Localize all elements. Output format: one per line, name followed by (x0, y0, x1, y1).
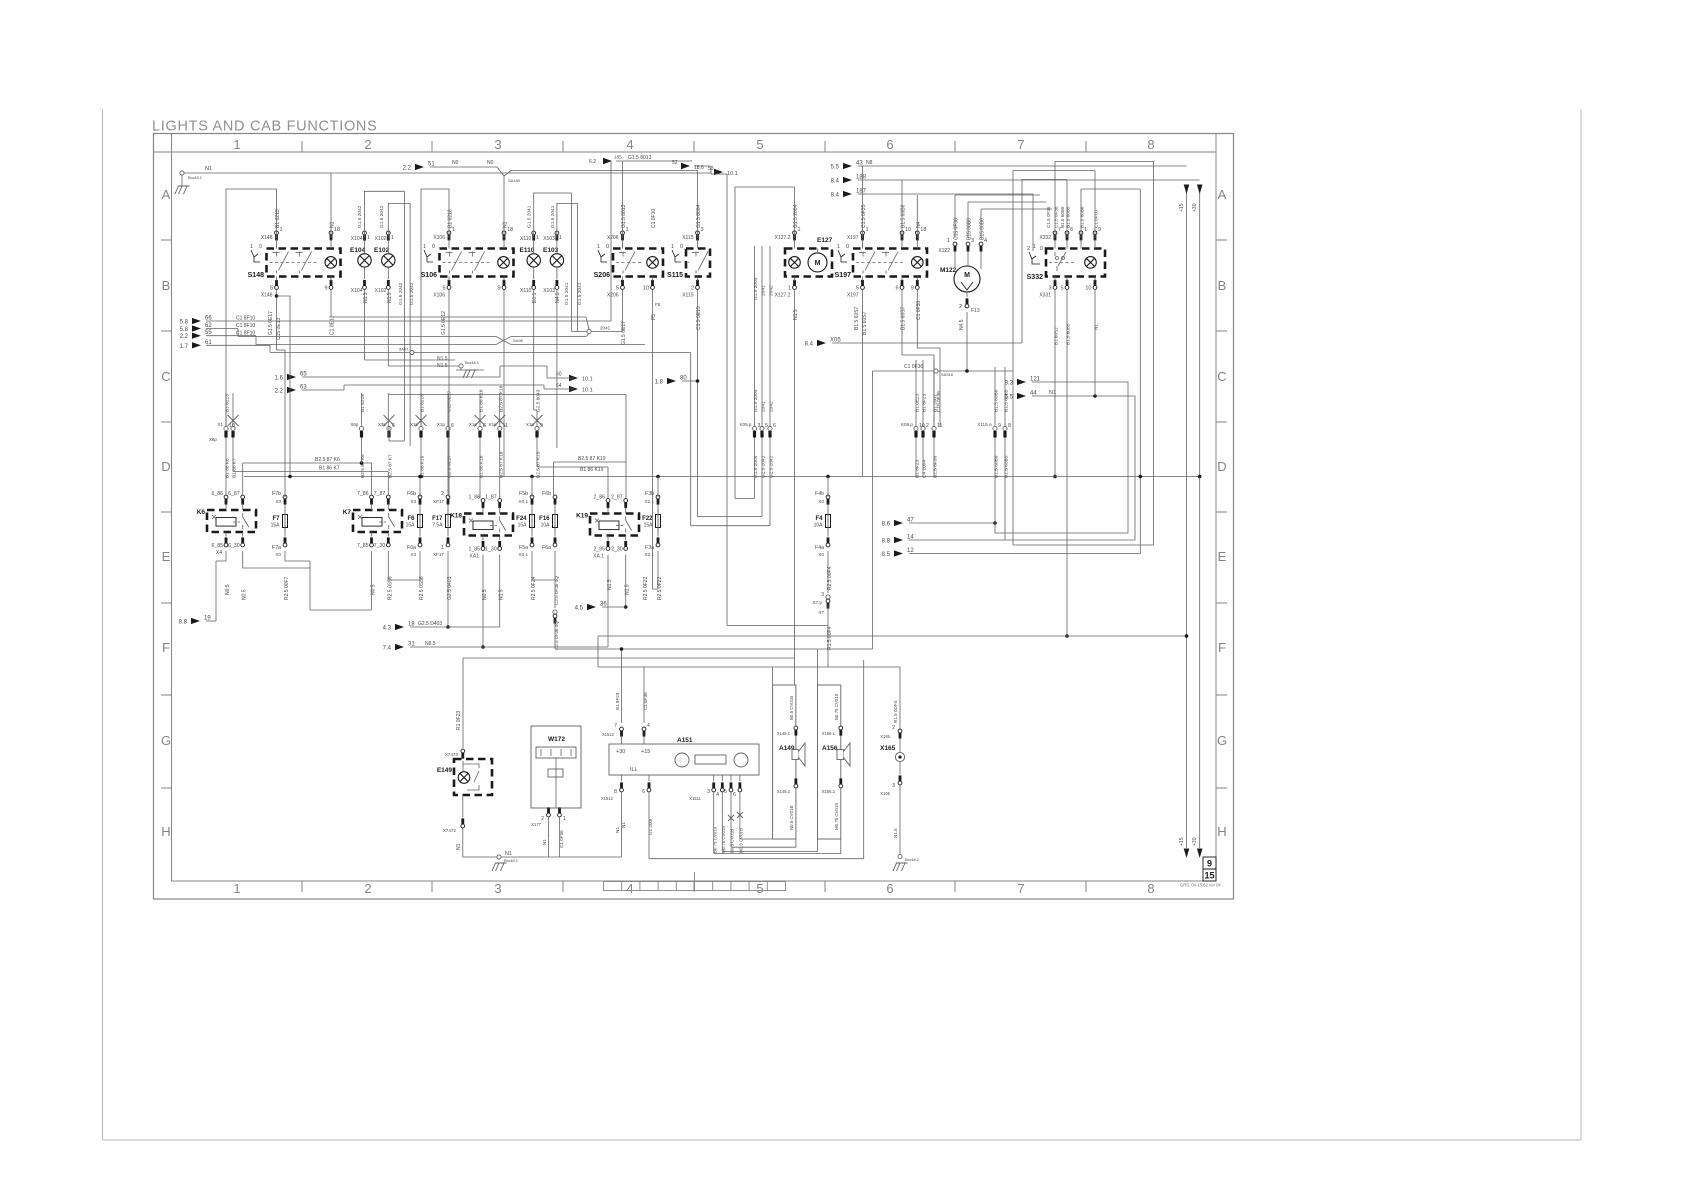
svg-text:2: 2 (926, 423, 929, 429)
arrow 19 row F (191, 618, 200, 624)
svg-text:10: 10 (1085, 286, 1091, 292)
svg-text:B1.5 60B6: B1.5 60B6 (994, 455, 1000, 478)
wire F7a down (285, 551, 310, 561)
svg-text:F7b: F7b (272, 491, 281, 497)
wire 10.1 drop (711, 173, 727, 175)
svg-text:F5a: F5a (519, 545, 528, 551)
junction 5A97 (410, 351, 414, 355)
wire F24a down (532, 551, 555, 580)
wire 187 to S332 lever (858, 193, 1033, 195)
svg-text:B1.5 60S7: B1.5 60S7 (854, 306, 860, 330)
wire F22a down (657, 551, 659, 589)
svg-text:9: 9 (540, 423, 543, 429)
lamp in S206 (647, 257, 659, 269)
arrow 47 right mid (894, 520, 903, 526)
svg-text:N8: N8 (866, 160, 873, 166)
wire R1 0F23 E149 feed (462, 658, 464, 748)
svg-text:X1512: X1512 (601, 796, 614, 801)
svg-text:1: 1 (250, 244, 253, 250)
svg-text:A151: A151 (677, 737, 693, 744)
wire top 189 (1081, 188, 1140, 190)
svg-text:C1.5 0F35: C1.5 0F35 (861, 204, 867, 228)
wire bus F corner (597, 636, 599, 667)
svg-text:X206: X206 (607, 293, 619, 299)
pin 3 S332 (1053, 286, 1057, 290)
svg-text:X197: X197 (847, 293, 859, 299)
svg-text:N1: N1 (456, 843, 462, 850)
wire 18 line (410, 626, 500, 628)
svg-text:0: 0 (606, 244, 609, 250)
svg-text:F7a: F7a (272, 545, 281, 551)
arrow 43 top right (843, 163, 852, 169)
svg-text:B1 86 K18: B1 86 K18 (479, 455, 485, 478)
svg-text:F5: F5 (655, 302, 661, 307)
svg-text:N4.5: N4.5 (959, 319, 965, 330)
svg-text:N1: N1 (503, 221, 509, 228)
wire S197 pin9 down (917, 290, 940, 427)
svg-text:W172: W172 (548, 736, 565, 743)
lamp in S106 (498, 257, 510, 269)
svg-text:F4b: F4b (815, 491, 824, 497)
svg-text:S206: S206 (594, 272, 610, 279)
pins W172 (547, 813, 551, 817)
svg-text:N1.5: N1.5 (437, 356, 448, 362)
svg-text:C: C (161, 369, 170, 384)
svg-text:X206: X206 (607, 235, 619, 241)
svg-text:G1.5 0E17: G1.5 0E17 (268, 311, 274, 335)
svg-text:5.5: 5.5 (831, 165, 840, 171)
svg-text:+15: +15 (1179, 203, 1185, 212)
pin 6 A151 (647, 788, 651, 792)
wire 14 line (909, 539, 1005, 541)
arrow 63 row C (287, 387, 296, 393)
wire pin6 route (739, 792, 741, 839)
svg-text:N0.5: N0.5 (225, 584, 231, 595)
wire pin3 route (713, 792, 715, 854)
wire 188 to +30 (858, 179, 1200, 181)
connector pins group 6b (760, 426, 764, 430)
svg-text:Bro48.1: Bro48.1 (504, 858, 519, 863)
wire col 480 down (479, 438, 481, 499)
svg-text:E: E (162, 549, 171, 564)
svg-text:15: 15 (1204, 871, 1214, 881)
svg-text:X104: X104 (351, 288, 363, 294)
svg-text:B0.5 CV01B: B0.5 CV01B (730, 829, 735, 853)
pins 3456 A151 (712, 788, 716, 792)
svg-text:B0.75 CV019: B0.75 CV019 (834, 693, 839, 720)
svg-text:H: H (1217, 824, 1226, 839)
svg-text:B1 8F23: B1 8F23 (915, 460, 921, 478)
relay rail 87 K6 (243, 462, 372, 464)
svg-text:F17: F17 (432, 516, 443, 522)
svg-text:X102: X102 (375, 236, 387, 242)
connector pins group 2 (359, 426, 363, 430)
svg-text:7_30: 7_30 (374, 543, 386, 549)
svg-text:5.8: 5.8 (180, 327, 189, 333)
connector pins group 8 (993, 426, 997, 430)
svg-text:B1.5 60B5: B1.5 60B5 (1060, 206, 1065, 228)
wire 52-18.6 (694, 165, 711, 167)
arrow 18 row F (395, 624, 404, 630)
svg-text:N1: N1 (615, 827, 620, 833)
lamp in S148 (325, 257, 337, 269)
wire 2041 junction link (572, 331, 592, 333)
svg-text:M: M (815, 260, 821, 267)
svg-text:X127.2: X127.2 (775, 293, 791, 299)
svg-text:SA189: SA189 (508, 178, 521, 183)
svg-text:G1.5 2004: G1.5 2004 (753, 455, 759, 478)
svg-text:6: 6 (886, 137, 893, 152)
wire h858 (649, 858, 864, 860)
svg-text:N0.5: N0.5 (242, 589, 248, 600)
svg-text:8.4: 8.4 (831, 193, 840, 199)
wire col 233 down (232, 438, 234, 472)
relay K6 pins (224, 495, 228, 499)
svg-text:X3: X3 (410, 552, 416, 557)
speaker loop A149 (773, 685, 796, 839)
svg-text:2_87: 2_87 (611, 495, 623, 501)
svg-text:B1.5 8F36: B1.5 8F36 (933, 456, 939, 478)
svg-text:N1: N1 (1094, 324, 1099, 330)
svg-text:B1 86 K6: B1 86 K6 (225, 458, 231, 478)
wire M122 pin1 up (954, 195, 956, 238)
svg-text:1: 1 (1033, 244, 1036, 250)
svg-text:X149.1: X149.1 (777, 731, 791, 736)
svg-text:6: 6 (451, 423, 454, 429)
pin 10 S206 (651, 286, 655, 290)
svg-text:B1.5 60B5: B1.5 60B5 (1066, 206, 1071, 228)
connector pins group 4b (494, 415, 505, 426)
svg-text:2: 2 (364, 137, 371, 152)
pin 3 M122 (966, 242, 970, 246)
wire pin5 route (730, 792, 732, 847)
wire right vertical 1153 (1153, 161, 1155, 545)
ground top left (180, 171, 184, 175)
wire v863 (863, 660, 865, 859)
svg-text:F4a: F4a (815, 545, 824, 551)
svg-text:N1.5: N1.5 (793, 309, 799, 320)
pin col ups right (915, 360, 917, 426)
pin 1 E127 (793, 231, 797, 235)
svg-text:G1.5 2041: G1.5 2041 (527, 205, 533, 228)
connector pins group 2b (384, 415, 395, 426)
arrow 188 right (843, 177, 852, 183)
pin X1492 A149 (794, 784, 798, 788)
svg-text:G1.5 2004: G1.5 2004 (753, 277, 759, 300)
svg-text:7_86: 7_86 (357, 491, 369, 497)
svg-text:0: 0 (680, 244, 683, 250)
svg-text:6: 6 (483, 423, 486, 429)
svg-text:F22: F22 (642, 516, 653, 522)
svg-text:N1: N1 (621, 822, 626, 828)
svg-text:10A: 10A (814, 523, 824, 529)
svg-text:C1 0F30: C1 0F30 (916, 301, 922, 320)
svg-text:6_87: 6_87 (228, 491, 240, 497)
wire E102 pin up (388, 203, 410, 238)
svg-text:XA1: XA1 (470, 554, 480, 560)
svg-text:SA98: SA98 (513, 338, 524, 343)
svg-text:B15 60B6: B15 60B6 (980, 218, 986, 240)
svg-text:X106: X106 (433, 293, 445, 299)
wire top 179.5 (1022, 179, 1067, 181)
relay K18 pins (481, 499, 485, 503)
svg-text:8.4: 8.4 (805, 342, 814, 348)
svg-text:C1 8F10: C1 8F10 (236, 323, 255, 329)
wire S106 pin1 up (421, 189, 449, 426)
antenna W172 (531, 726, 581, 808)
svg-text:8.8: 8.8 (882, 539, 891, 545)
connector pins group 3 (416, 415, 427, 426)
pin 1 S106 (447, 231, 451, 235)
wire A151 pin6 down (648, 792, 650, 859)
wire 36 line (602, 606, 626, 608)
wire 47 line (909, 522, 995, 524)
wire bottom N1 rail (463, 856, 622, 858)
svg-text:X197: X197 (847, 235, 859, 241)
svg-text:X7: X7 (818, 610, 824, 615)
pin 1 S206 (621, 231, 625, 235)
drawing frame (154, 134, 1234, 900)
svg-text:2_86: 2_86 (593, 495, 605, 501)
svg-text:B1 0E23: B1 0E23 (915, 393, 921, 412)
svg-text:B1 6218: B1 6218 (448, 209, 454, 228)
svg-text:R2.5 00F7: R2.5 00F7 (284, 576, 290, 600)
svg-text:X148: X148 (261, 235, 273, 241)
pin 1 S197 (861, 231, 865, 235)
svg-text:X7472: X7472 (443, 828, 457, 833)
wire S332 pin10 down N1 (1094, 290, 1096, 396)
wire S106 pin18 up N1 (503, 176, 505, 238)
svg-text:2042: 2042 (769, 285, 775, 296)
row ticks (161, 240, 1227, 788)
wire F4 up (827, 477, 829, 498)
connector pins group 6 center (752, 426, 756, 430)
connector pins group 6c (768, 426, 772, 430)
svg-text:0: 0 (259, 244, 262, 250)
svg-text:G1.5 2042: G1.5 2042 (357, 205, 363, 228)
wire F6 up (419, 477, 421, 498)
svg-text:0: 0 (846, 244, 849, 250)
svg-text:B1.5 60B5: B1.5 60B5 (1004, 455, 1010, 478)
svg-text:X122: X122 (938, 248, 950, 254)
svg-text:3: 3 (494, 137, 501, 152)
svg-text:6: 6 (392, 423, 395, 429)
svg-text:1: 1 (367, 235, 370, 241)
wire F4a down (827, 551, 829, 593)
svg-text:D: D (161, 459, 170, 474)
wire A151 pin7 feed (621, 649, 623, 723)
svg-text:X1512: X1512 (602, 732, 615, 737)
svg-text:H: H (161, 824, 170, 839)
wire F7 feed (284, 350, 286, 497)
svg-text:X110: X110 (520, 236, 532, 242)
wire K7 86 up (371, 463, 373, 495)
svg-text:E103: E103 (543, 247, 559, 254)
pin 3 S115 (696, 231, 700, 235)
wire S332 pin1 up (1080, 189, 1082, 238)
svg-text:7_87: 7_87 (374, 491, 386, 497)
svg-text:F7: F7 (272, 516, 280, 522)
svg-text:G1.5 8013: G1.5 8013 (628, 155, 652, 161)
svg-text:2: 2 (364, 881, 371, 896)
svg-text:1.7: 1.7 (180, 344, 189, 350)
svg-text:N4.5: N4.5 (555, 292, 561, 303)
wire row C long 394 (388, 394, 626, 396)
wire X165 down (899, 785, 901, 855)
svg-text:S106: S106 (421, 272, 437, 279)
wire bottom 545 (1013, 544, 1154, 546)
svg-text:Bro48.1: Bro48.1 (465, 360, 480, 365)
svg-text:A156: A156 (822, 745, 838, 752)
svg-text:X0: X0 (275, 552, 281, 557)
wire K6 87 up (242, 463, 244, 495)
svg-text:4: 4 (716, 792, 719, 798)
svg-text:B1.5 60B5: B1.5 60B5 (1004, 389, 1010, 412)
connector pin X7 below F4 (826, 595, 830, 599)
pin bottom E127 (793, 286, 797, 290)
wire M122 pin3 up (967, 202, 969, 238)
svg-text:X156.1: X156.1 (822, 731, 836, 736)
wire row C 80 (682, 380, 698, 382)
wire S332 pin9 up (1094, 171, 1096, 239)
wire S115 pin3 up (697, 171, 699, 239)
svg-text:5: 5 (616, 286, 619, 292)
wire M122 down (966, 312, 968, 371)
svg-text:X3p: X3p (378, 422, 387, 427)
wire col 361 down (361, 438, 363, 464)
wire E104 down (364, 290, 366, 360)
wire E110 down (533, 290, 535, 410)
relay rail 87 K19 (554, 461, 627, 463)
svg-text:X2.1: X2.1 (645, 552, 655, 557)
pin 6 S197 (900, 286, 904, 290)
wire row C 65 (302, 376, 500, 378)
pin col ups center (754, 246, 756, 426)
svg-text:B2.5 87 K18: B2.5 87 K18 (498, 451, 504, 478)
wire F16 up (553, 462, 555, 497)
svg-text:N1.5: N1.5 (363, 292, 369, 303)
svg-text:A: A (1218, 187, 1227, 202)
wire G1.5 2042 drop a (403, 191, 405, 441)
svg-text:C1 0E10: C1 0E10 (330, 315, 336, 335)
switch S197 (853, 249, 927, 277)
wire col 226 down (225, 438, 227, 496)
svg-text:Bro48.2: Bro48.2 (905, 857, 920, 862)
svg-text:9: 9 (324, 286, 327, 292)
motor in E127 (808, 253, 827, 272)
svg-text:G1.5 2042: G1.5 2042 (409, 282, 415, 305)
connector pins group 5 (532, 415, 543, 426)
svg-text:+15: +15 (641, 749, 650, 755)
svg-text:5: 5 (756, 137, 763, 152)
wire X05 line (832, 342, 1022, 344)
svg-text:5: 5 (442, 286, 445, 292)
svg-text:B1.5 60B6: B1.5 60B6 (1080, 206, 1085, 228)
svg-text:15A: 15A (644, 523, 654, 529)
pin 7 A151 (620, 727, 624, 731)
wire K18 85 down (482, 555, 484, 648)
wire y343 nested drop (690, 353, 692, 526)
svg-text:M0.5 CV01B: M0.5 CV01B (739, 828, 744, 853)
pin 1 S332 (1079, 231, 1083, 235)
wire K19 85 down (607, 555, 609, 648)
pin 2 M122 (965, 304, 969, 308)
svg-text:1: 1 (597, 244, 600, 250)
fuse F6 (418, 515, 423, 528)
wire S148 pin1 up (226, 189, 277, 426)
svg-text:0: 0 (432, 244, 435, 250)
svg-text:5: 5 (856, 286, 859, 292)
svg-text:X110: X110 (520, 288, 532, 294)
wire G1.5 2004 nested (754, 438, 756, 499)
svg-text:6_85: 6_85 (211, 543, 223, 549)
arrow 14 right mid (894, 537, 903, 543)
switch S148 (267, 249, 341, 277)
svg-text:X1p: X1p (437, 422, 446, 427)
pin 5 S332 (1065, 286, 1069, 290)
connector pins group 8b (1003, 426, 1007, 430)
wire E110 pin up (534, 193, 572, 238)
svg-text:B2.5 87 K18: B2.5 87 K18 (498, 385, 504, 412)
svg-text:B1 6218: B1 6218 (360, 394, 366, 412)
svg-text:X2.1: X2.1 (645, 499, 655, 504)
svg-text:B1 6213: B1 6213 (225, 394, 231, 412)
wire 2041 to S206 (591, 331, 623, 333)
wire K18 30 down (499, 555, 501, 628)
svg-text:4: 4 (647, 723, 650, 729)
svg-text:X177: X177 (531, 822, 541, 827)
svg-text:B1 8F23: B1 8F23 (922, 394, 928, 412)
bottom revision strip (604, 872, 786, 891)
fuse F16 (553, 515, 558, 528)
svg-text:1_30: 1_30 (485, 547, 497, 553)
svg-text:6_30: 6_30 (228, 543, 240, 549)
wire S148 pin5 down (276, 290, 278, 350)
svg-text:2041: 2041 (761, 285, 767, 296)
svg-text:R2.5 0F22: R2.5 0F22 (643, 576, 649, 600)
wire F22 up (657, 477, 659, 498)
svg-text:X0: X0 (275, 499, 281, 504)
svg-text:G1.5 2004: G1.5 2004 (753, 389, 759, 412)
svg-text:X4: X4 (216, 550, 222, 556)
svg-text:F: F (1218, 640, 1226, 655)
svg-text:N0.5 CV01B: N0.5 CV01B (789, 806, 794, 830)
svg-text:7: 7 (1017, 881, 1024, 896)
svg-text:X156.2: X156.2 (822, 789, 836, 794)
svg-text:2.2: 2.2 (403, 166, 412, 172)
svg-text:8.4: 8.4 (831, 179, 840, 185)
svg-text:2: 2 (541, 816, 544, 822)
wire S332 loop pin7 (1054, 161, 1056, 238)
svg-text:S148: S148 (248, 272, 264, 279)
svg-text:X1p: X1p (489, 422, 498, 427)
svg-text:ILL: ILL (630, 767, 638, 773)
svg-text:K05.p: K05.p (901, 422, 913, 427)
svg-text:5A97: 5A97 (399, 347, 409, 352)
svg-text:M0.75 CV019: M0.75 CV019 (721, 826, 726, 853)
svg-text:B0.5 CV01B: B0.5 CV01B (789, 696, 794, 720)
svg-text:+30: +30 (1192, 203, 1198, 212)
svg-text:G1.5 2041: G1.5 2041 (564, 282, 570, 305)
svg-text:K05.p: K05.p (739, 422, 751, 427)
interior lamp E127 (785, 249, 832, 277)
svg-text:1: 1 (671, 244, 674, 250)
svg-text:R1 0F23: R1 0F23 (456, 711, 462, 730)
wire 19 line (215, 561, 217, 621)
svg-text:6: 6 (895, 286, 898, 292)
svg-text:X331: X331 (1039, 293, 1051, 299)
svg-text:N8.5: N8.5 (425, 641, 436, 647)
